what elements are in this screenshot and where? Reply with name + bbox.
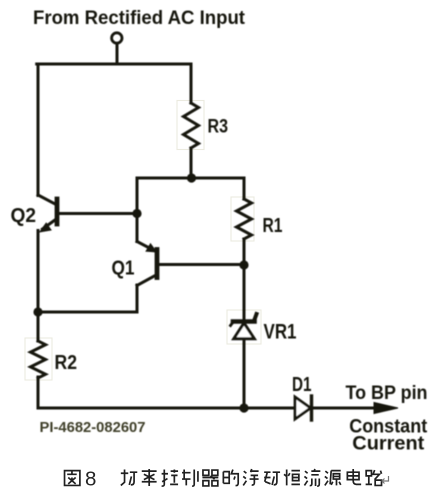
diode D1: [295, 396, 312, 420]
wire mid vertical x137: [136, 178, 139, 242]
wire left vertical lower: [37, 231, 40, 342]
junction node VR1 / bottom rail: [239, 403, 248, 412]
svg-text:PI-4682-082607: PI-4682-082607: [40, 420, 146, 436]
wire bottom-left link: [38, 311, 137, 314]
svg-text:VR1: VR1: [264, 321, 297, 344]
wire bottom rail: [38, 407, 295, 410]
resistor R1: [237, 199, 252, 239]
wire Q1 base: [159, 263, 244, 266]
wire R2 to bottom rail: [37, 377, 40, 408]
terminal: From Rectified AC Input: [112, 33, 122, 43]
wire R3 to node: [190, 148, 193, 178]
svg-text:D1: D1: [292, 374, 312, 396]
hanzi 控: [162, 470, 178, 487]
svg-text:Q1: Q1: [112, 258, 135, 280]
wire D1 to output: [313, 407, 378, 410]
hanzi 流: [304, 469, 320, 486]
hanzi 制: [182, 470, 198, 487]
hanzi 率: [142, 469, 157, 486]
transistor Q2: [38, 195, 57, 232]
svg-text:Q2: Q2: [11, 205, 37, 227]
wire left vertical upper: [37, 64, 40, 196]
hanzi 图: [65, 471, 80, 486]
wire stem from terminal: [116, 44, 119, 64]
svg-text:To BP pin: To BP pin: [346, 383, 428, 404]
wire R1 to Q1 base node: [243, 239, 246, 265]
output arrow: [374, 403, 398, 414]
hanzi 恒: [284, 470, 300, 486]
R2 highlight box: [25, 338, 52, 380]
hanzi 的: [223, 470, 238, 486]
wire R3 branch upper: [190, 64, 193, 103]
hanzi 动: [264, 472, 280, 485]
caption: 图 8 功率控制器的浮动恒流源电路 (drawn glyphs): [65, 468, 389, 491]
R1 highlight box: [231, 197, 254, 241]
svg-text:Current: Current: [352, 433, 425, 454]
hanzi 路: [366, 470, 382, 485]
wire Q2 base: [59, 212, 137, 215]
hanzi 电: [347, 469, 361, 484]
hanzi 源: [325, 471, 341, 486]
wire right vertical to R1: [243, 178, 246, 199]
junction node Q2 base: [132, 209, 141, 218]
svg-text:From Rectified AC Input: From Rectified AC Input: [33, 8, 246, 29]
wire node to VR1: [243, 265, 246, 319]
zener diode VR1: [231, 314, 257, 339]
wire top rail: [37, 63, 191, 66]
VR1 highlight box: [227, 310, 261, 344]
wire node rail: [137, 177, 244, 180]
wire Q1 collector down: [136, 285, 139, 312]
digit 8: [85, 468, 96, 491]
hanzi 功: [121, 470, 137, 486]
R3 highlight box: [177, 101, 204, 150]
hanzi 浮: [243, 469, 258, 485]
svg-text:8: 8: [85, 468, 96, 491]
junction node Q1 base / R1: [239, 260, 248, 269]
svg-text:R2: R2: [55, 352, 78, 374]
svg-text:R1: R1: [263, 215, 283, 237]
wire VR1 to bottom rail: [243, 340, 246, 408]
hanzi 器: [202, 470, 218, 486]
return mark: [382, 476, 389, 484]
resistor R3: [184, 103, 199, 148]
transistor Q1: [137, 242, 157, 286]
junction node R3/rail: [187, 173, 196, 182]
junction node left rail: [33, 307, 42, 316]
resistor R2: [31, 341, 46, 378]
svg-text:R3: R3: [208, 117, 229, 138]
